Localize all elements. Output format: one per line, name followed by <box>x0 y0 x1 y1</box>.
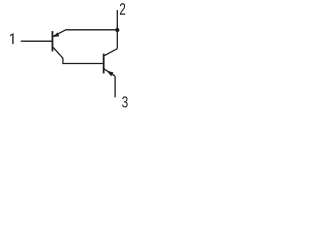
transistor Q2 base bar <box>103 54 105 74</box>
pin label 1 <box>10 34 14 45</box>
transistor Q2 emitter lead (diagonal) <box>104 69 115 76</box>
wire: Q1 collector to Q2 base <box>53 47 103 63</box>
node junction dot <box>115 28 119 32</box>
transistor Q1 emitter lead (diagonal) <box>53 30 66 37</box>
transistor Q1 emitter arrow <box>53 32 59 37</box>
wire: Q1 emitter to node 2 (horizontal) <box>66 29 118 31</box>
pin label 3 <box>122 96 128 107</box>
transistor Q1 base bar <box>51 31 53 51</box>
transistor Q2 emitter arrow <box>107 71 114 77</box>
wire: pin 3 vertical <box>114 76 116 97</box>
wire: pin 1 to Q1 base <box>21 40 52 42</box>
pin label 2 <box>120 3 125 15</box>
wire: pin 2 vertical <box>116 10 118 49</box>
transistor Q2 collector lead (diagonal) <box>104 49 117 56</box>
